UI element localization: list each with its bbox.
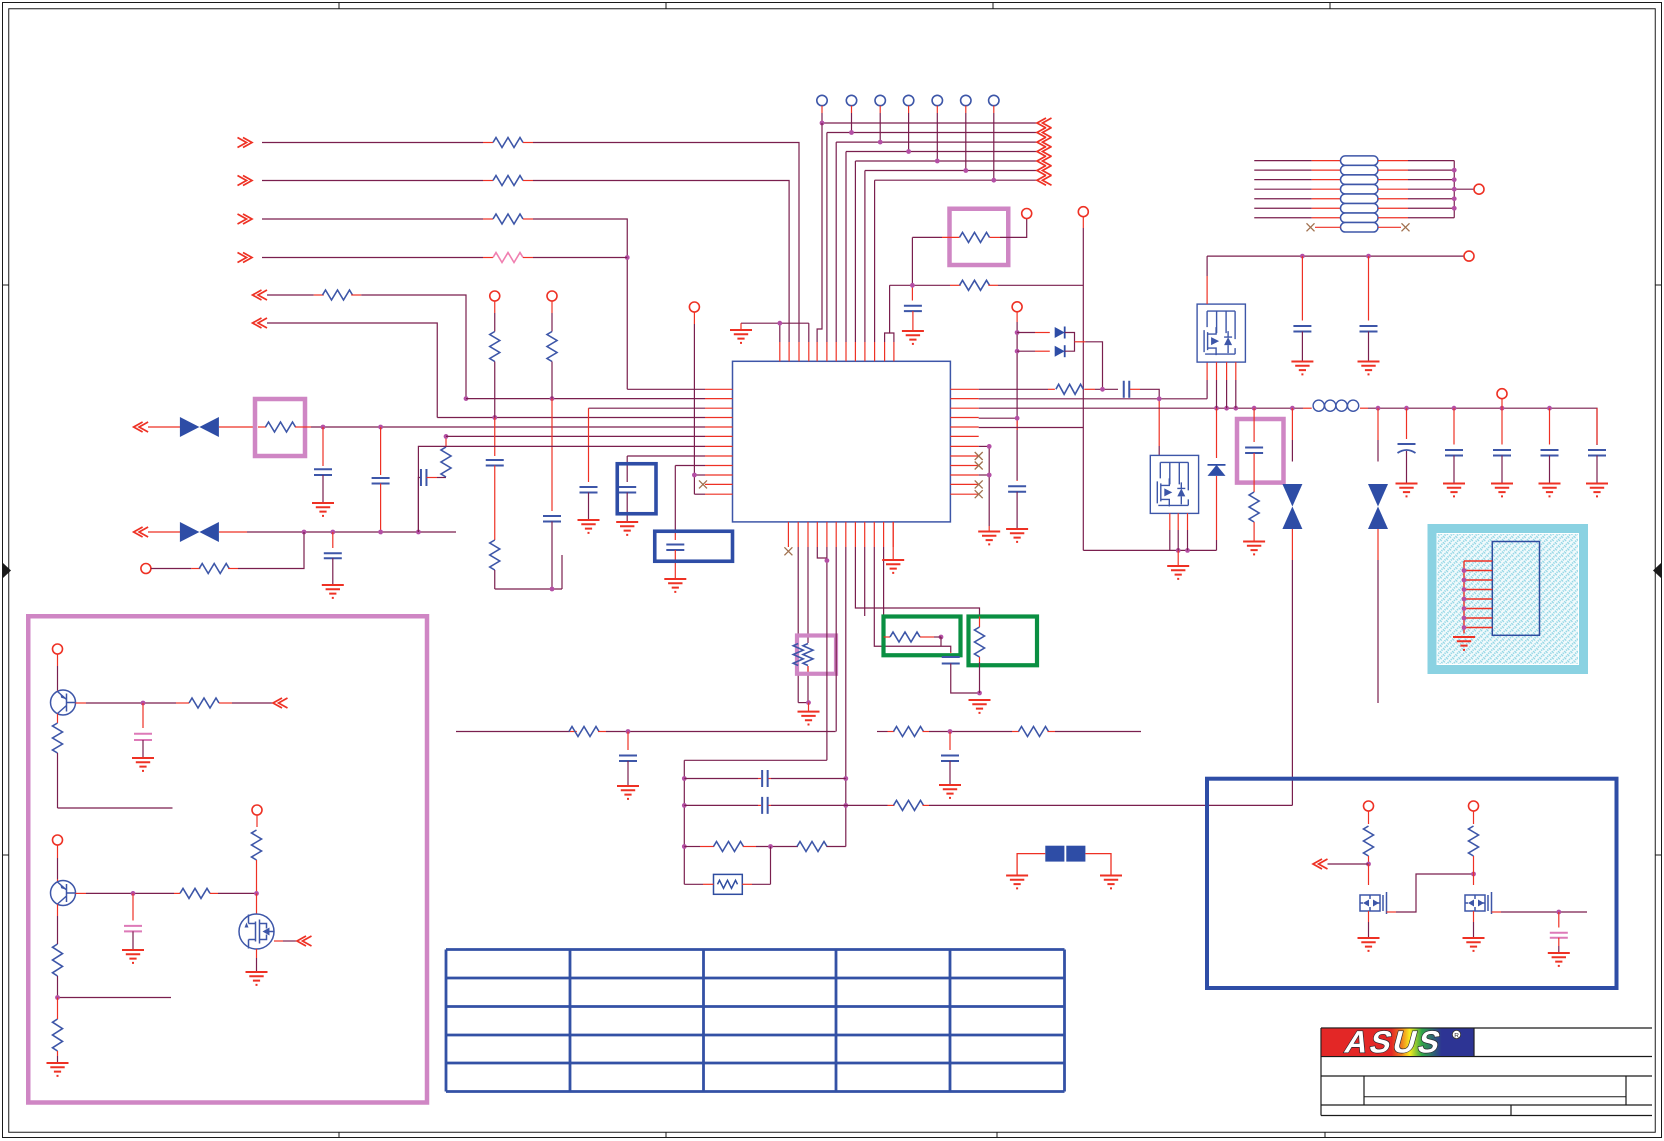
wire R27 out [218, 892, 256, 894]
no-connect ROW465R [975, 462, 983, 470]
connector J10 [53, 644, 63, 654]
wire MOS1 pin1 [1206, 380, 1208, 399]
resistor RN1-8 [1341, 223, 1379, 233]
wire RP1 left [1254, 160, 1312, 162]
node R16 out [939, 635, 944, 640]
wire F2 right [1085, 854, 1111, 876]
wire R16-C16 [934, 636, 941, 638]
wire BUS3 [836, 141, 1037, 143]
wire TP7 lead [993, 106, 995, 113]
table revision-block [445, 950, 448, 1092]
wire R14 out [1084, 388, 1095, 390]
ground C20 [939, 785, 961, 798]
wire D3 branch [1216, 408, 1218, 458]
net-arrow Q6 [1313, 859, 1328, 869]
node BOT845 j1 [843, 776, 848, 781]
connector TP7 [989, 95, 999, 105]
highlight box P4 [28, 616, 427, 1102]
wire X770 [770, 847, 772, 885]
wire ROW731c [877, 731, 888, 733]
wire TP5 lead [936, 106, 938, 113]
wire W3 [238, 214, 253, 224]
resistor R20 [1019, 727, 1049, 737]
no-connect RP8L [1307, 223, 1315, 231]
inductor L1 [1313, 400, 1324, 411]
node ROW427 j2 [378, 425, 383, 430]
resistor RN1-7 [1341, 213, 1379, 223]
ground C14 [1443, 484, 1465, 497]
highlight box P5 [797, 636, 836, 674]
wire Q7 src [1473, 911, 1475, 922]
wire W6 [253, 318, 268, 328]
wire BUS6 [865, 170, 1037, 172]
diode TVS2 [180, 522, 200, 542]
wire Q1 top [1206, 256, 1208, 276]
node BUS4 junction [906, 149, 911, 154]
node ROW731 j2 [948, 729, 953, 734]
wire R29 down [57, 1051, 59, 1056]
no-connect ROW484L [699, 480, 707, 488]
ground G-cluster [969, 700, 991, 713]
wire TVS2 out [219, 531, 247, 533]
capacitor C6 [543, 516, 561, 522]
wire X989 [988, 446, 990, 475]
connector TP3 [875, 95, 885, 105]
capacitor C8 [1016, 480, 1018, 481]
wire Q6 drain [1368, 864, 1370, 885]
node ROW418 j [1015, 416, 1020, 421]
node W5 corner [464, 396, 469, 401]
wire D1D2 out [1065, 333, 1075, 352]
ground C3 [322, 585, 344, 598]
connector J3 [547, 291, 557, 301]
wire BOT 798 [797, 547, 799, 643]
wire Q6 src [1368, 911, 1370, 922]
diode D2 [1055, 346, 1065, 357]
ic U1 right pins [950, 388, 978, 390]
wire ROW427R [979, 427, 1084, 429]
chain X588 [588, 408, 590, 482]
resistor R4 [493, 253, 523, 263]
resistor R2 [493, 176, 523, 186]
ground C25 [1548, 953, 1570, 966]
wire ROW417L [437, 417, 705, 419]
wire R30 top [256, 815, 258, 827]
resistor R7 [199, 564, 229, 574]
ground Q6 [1358, 938, 1380, 951]
transistor Q7 [1465, 892, 1492, 914]
highlight box P3 [1237, 419, 1284, 483]
diode TVS3 [1282, 484, 1302, 507]
node ROW532 j2 [330, 530, 335, 535]
node X989 j1 [987, 444, 992, 449]
connector TP6 [961, 95, 971, 105]
node RAIL408 j9 [1500, 406, 1505, 411]
ic U1 [733, 361, 951, 522]
resistor R26 [53, 723, 63, 753]
component F1 [1045, 846, 1064, 862]
capacitor C20 [949, 732, 951, 751]
wire X1083 [1082, 217, 1084, 228]
node BOT845 j2 [843, 803, 848, 808]
wire RP8 right [1378, 226, 1401, 228]
transistor Q2 [1150, 455, 1198, 513]
wire BOT 874 [874, 547, 941, 646]
resistor R15 [1249, 492, 1259, 522]
highlight box P1 [255, 399, 305, 456]
net-arrow BUS5 [1037, 156, 1052, 166]
wire R12 right [990, 236, 1001, 238]
wire GND550 stem [1177, 550, 1179, 566]
ground C1 [312, 503, 334, 516]
connector TP1 [817, 95, 827, 105]
ic U1 left pins [705, 388, 733, 390]
resistor R24 [714, 874, 743, 894]
ground X588 [578, 520, 600, 533]
wire BOT 817 [817, 547, 827, 558]
wire BOT 836 [835, 547, 837, 732]
wire ROW778b [769, 778, 772, 780]
ground ROW550 [1167, 566, 1189, 579]
wire BOT 893 [892, 522, 894, 560]
wire J1-R7 [151, 568, 191, 570]
capacitor C16 [1549, 408, 1551, 444]
wire ROW778 [684, 778, 758, 780]
node X684 j3 [682, 844, 687, 849]
transistor Q6 [1360, 892, 1387, 914]
node ROW285 j [910, 283, 915, 288]
node BUS6 junction [963, 168, 968, 173]
wire X684 [683, 760, 685, 884]
net-arrow Q3 base [273, 698, 288, 708]
resistor R16 [884, 636, 890, 638]
node RP bus j4 [1452, 196, 1457, 201]
node RP bus j3 [1452, 187, 1457, 192]
wire W4 [238, 253, 253, 263]
wire X1017 [1016, 312, 1018, 322]
connector J5 [1022, 209, 1032, 219]
resistor R22 [714, 842, 744, 852]
node BUS2 junction [849, 130, 854, 135]
node ROW846 j [768, 844, 773, 849]
node ROW389 j [1100, 387, 1105, 392]
wire ROW731d [923, 731, 930, 733]
wire Q5 drain [256, 893, 258, 914]
wire TVS3 feed [1291, 408, 1293, 440]
resistor R8 [441, 447, 451, 477]
wire TVS1 in [134, 422, 149, 432]
wire W1b [523, 142, 533, 144]
wire R11 down [551, 362, 553, 399]
wire ROW465L [675, 465, 705, 467]
wire D3 down [1216, 476, 1218, 540]
wire TVS3 down [1291, 529, 1293, 560]
node ROW731 j1 [626, 729, 631, 734]
resistor R18 [569, 727, 599, 737]
resistor R1 [493, 138, 523, 148]
wire ROW731e [1048, 731, 1056, 733]
wire R9 down [494, 362, 496, 418]
wire BUS5 [855, 160, 1037, 162]
wire Q4 emit2 [57, 916, 59, 944]
component F2 [1066, 846, 1085, 862]
node BOT 826 j [825, 558, 830, 563]
capacitor C13 [1406, 408, 1408, 439]
resistor R5 [323, 290, 353, 300]
capacitor C23 [142, 703, 144, 728]
node RAIL408 j10 [1547, 406, 1552, 411]
capacitor C24 [132, 893, 134, 920]
wire W1 [238, 138, 253, 148]
node RAIL408 j6 [1376, 406, 1381, 411]
node R8 top [444, 434, 449, 439]
resistor RN1-2 [1341, 165, 1379, 175]
no-connect ROW484R [975, 480, 983, 488]
wire Q3 emit2 [57, 753, 59, 808]
highlight box B1 [617, 464, 656, 514]
resistor R28 [53, 944, 63, 976]
wire R15 down [1253, 522, 1255, 542]
wire ROW805c [923, 804, 930, 806]
resistor R30 [252, 830, 262, 860]
ground BOT [798, 712, 820, 725]
node ROW417 j [492, 415, 497, 420]
wire BOT 808 [807, 547, 809, 643]
highlight box G2 [969, 617, 1038, 666]
connector J1 [141, 564, 151, 574]
wire BOT 826 [826, 547, 828, 760]
node X684 j1 [682, 776, 687, 781]
net-arrow BUS2 [1037, 128, 1052, 138]
wire RP3 right [1378, 179, 1408, 181]
wire D2 lead [1017, 350, 1035, 352]
wire ROW256 [1207, 255, 1464, 257]
resistor RN1-4 [1341, 184, 1379, 194]
no-connect ROW494R [975, 490, 983, 498]
wire BOT 855 [855, 547, 979, 617]
wire RP6 right [1378, 207, 1408, 209]
ground C17 [1586, 484, 1608, 497]
ic U2 [1492, 542, 1539, 636]
wire ROW805a [684, 804, 758, 806]
resistor R10 [490, 540, 500, 570]
node RP bus j1 [1452, 168, 1457, 173]
wire R12 left [912, 236, 942, 238]
wire Q3 emit [57, 714, 59, 723]
chain X552 [551, 301, 553, 313]
wire Q4 base [76, 892, 87, 894]
wire TVS4 down [1377, 529, 1379, 560]
diode D3 [1208, 465, 1226, 476]
connector J4 [689, 302, 699, 312]
wire ROW550 [1083, 549, 1216, 551]
wire TP4 lead [908, 106, 910, 113]
wire TVS4 feed [1377, 408, 1379, 440]
resistor R27 [180, 888, 210, 898]
node BOT gnd j [806, 700, 811, 705]
node ROW398 jr [1157, 396, 1162, 401]
resistor RN1-5 [1341, 194, 1379, 204]
wire R30 down [256, 860, 258, 893]
wire RP5 left [1254, 198, 1312, 200]
net-arrow BUS6 [1037, 166, 1052, 176]
capacitor C19 [627, 732, 629, 751]
resistor R3 [493, 214, 523, 224]
wire Q2 pins [1169, 513, 1171, 530]
wire RAIL408b [1360, 407, 1368, 409]
connector J6 [1078, 207, 1088, 217]
wire loop589 [495, 588, 562, 590]
node X1017 d2 [1015, 349, 1020, 354]
transistor Q1 [1197, 304, 1245, 362]
ic U1 bottom pins [787, 522, 789, 547]
node X684 j2 [682, 803, 687, 808]
node RAIL408 j2 [1224, 406, 1229, 411]
wire Q7 drain [1473, 874, 1475, 885]
wire RAIL408 [979, 407, 1303, 409]
wire BUS1 [822, 122, 1037, 124]
wire RP7 right [1378, 217, 1408, 219]
wire ROW436 [446, 435, 705, 437]
wire TVS1 out [219, 426, 255, 428]
chain X627b [626, 456, 628, 482]
highlight box G1 [884, 617, 961, 656]
wire W5 [253, 290, 268, 300]
capacitor C14 [1453, 408, 1455, 444]
net-arrow BUS4 [1037, 147, 1052, 157]
wire W4b [523, 257, 533, 259]
node Q6 gate j [1366, 862, 1371, 867]
wire X694 [693, 312, 695, 324]
wire ROW427 [311, 426, 705, 428]
resistor R25 [189, 698, 219, 708]
connector TP4 [903, 95, 913, 105]
node RAIL408 j1 [1214, 406, 1219, 411]
ground C13 [1396, 484, 1418, 497]
node X694 j [692, 473, 697, 478]
no-connect BOT1 [784, 547, 792, 555]
wire RP7 left [1254, 217, 1312, 219]
ground C16 [1539, 484, 1561, 497]
wire RP4 left [1254, 188, 1312, 190]
wire ROW456L [627, 455, 705, 457]
net-arrow BUS7 [1037, 175, 1052, 185]
node RAIL408 j7 [1404, 406, 1409, 411]
wire R25 out [232, 702, 273, 704]
wire BOT gnd stem [808, 703, 810, 712]
node loop589 j [550, 587, 555, 592]
resistor R14 [1056, 384, 1083, 394]
node RP bus j5 [1452, 206, 1457, 211]
ground X627b [616, 522, 638, 535]
ground X989 [978, 532, 1000, 545]
node ROW256 j1 [1300, 254, 1305, 259]
resistor R12 [960, 232, 990, 242]
wire R31 down [1368, 856, 1370, 864]
transistor Q5 [239, 914, 274, 949]
connector TP2 [846, 95, 856, 105]
highlight box B3 [1207, 779, 1617, 988]
connector J13 [1474, 184, 1484, 194]
node ROW427 j1 [321, 425, 326, 430]
wire ROW846b [743, 846, 756, 848]
resistor RN1-1 [1341, 156, 1379, 166]
wire Q4 emit [57, 904, 59, 916]
wire ROW408L [589, 407, 706, 409]
no-connect RP8R [1402, 223, 1410, 231]
node RAIL408 j4 [1252, 406, 1257, 411]
transistor Q3 [51, 690, 76, 715]
wire ROW285 [890, 284, 950, 286]
no-connect ROW455R [975, 452, 983, 460]
resistor R6 [258, 426, 266, 428]
wire D1 lead [1017, 332, 1035, 334]
connector J12 [252, 805, 262, 815]
node RAIL408 j3 [1233, 406, 1238, 411]
connector J8 [1497, 389, 1507, 399]
wire W5b [351, 294, 361, 296]
wire BUS7 [875, 179, 1037, 181]
capacitor C25 [1558, 912, 1560, 928]
ground F1 [1006, 876, 1028, 889]
capacitor C7 [911, 285, 913, 300]
node GNDLINE j [777, 321, 782, 326]
diode D1 [1055, 327, 1065, 338]
wire Q5 src [256, 949, 258, 958]
wire X418 riser [418, 478, 421, 533]
ground GNDLINE [730, 330, 752, 343]
capacitor C12 [1253, 408, 1255, 442]
wire RP5 right [1378, 198, 1408, 200]
capacitor C21 [762, 770, 768, 787]
ground C10 [1291, 362, 1313, 375]
ground X675 [664, 579, 686, 592]
node ROW256 j2 [1366, 254, 1371, 259]
wire ROW846c [827, 846, 846, 848]
capacitor C4 [421, 469, 427, 486]
wire R32 down [1473, 856, 1475, 874]
ground Q7 [1463, 938, 1485, 951]
connector J11 [53, 835, 63, 845]
wire Q4 coll [57, 845, 59, 858]
wire ROW389R [979, 388, 1048, 390]
ic U2 pins [1464, 560, 1492, 562]
capacitor C9 [1124, 381, 1130, 398]
wire BOT 845 [845, 547, 847, 847]
wire ROW805b [769, 804, 772, 806]
resistor R23 [797, 842, 827, 852]
wire Q3 base [76, 702, 87, 704]
net-arrow BUS1 [1037, 118, 1052, 128]
wire ROW846 [684, 846, 700, 848]
capacitor C3 [332, 532, 334, 548]
ic U1 top pins [779, 342, 781, 361]
node RAIL408 j5 [1290, 406, 1295, 411]
wire ROW398R [979, 398, 1207, 400]
node BUS3 junction [878, 140, 883, 145]
node X1017 d1 [1015, 330, 1020, 335]
capacitor C1 [322, 427, 324, 466]
capacitor C11 [1368, 256, 1370, 320]
wire RP4 right [1378, 188, 1408, 190]
resistor R31 [1364, 826, 1374, 856]
net-arrow Q5 [297, 936, 312, 946]
resistor R17 [979, 617, 981, 628]
wire Q7 top [1473, 811, 1475, 824]
ground BOT893 [882, 560, 904, 573]
wire TP3 lead [879, 106, 881, 113]
resistor R11 [547, 332, 557, 362]
